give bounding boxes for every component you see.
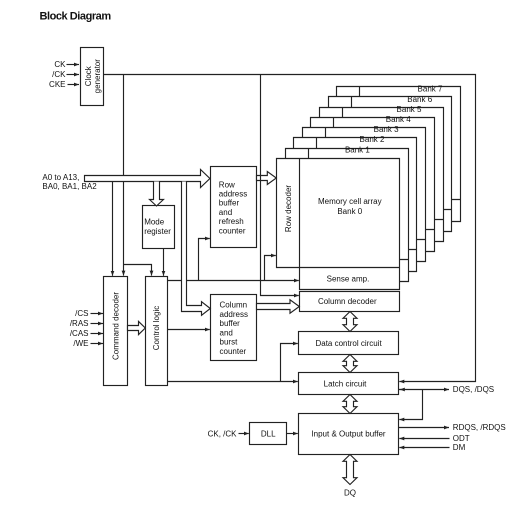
svg-text:/CS: /CS xyxy=(75,309,88,318)
svg-text:Bank 3: Bank 3 xyxy=(374,125,399,134)
hollow L arrow into column address buffer xyxy=(182,182,211,316)
svg-text:DM: DM xyxy=(453,443,466,452)
wire DQS arrowhead into latch circuit xyxy=(400,389,405,391)
hollow arrow branch into mode register xyxy=(150,182,164,207)
hollow arrow row address buffer to row decoder xyxy=(257,172,277,185)
wire CK,/CK into DLL xyxy=(239,433,249,435)
bank 6 xyxy=(329,97,452,232)
svg-text:Column: Column xyxy=(220,301,248,310)
bank 7 xyxy=(337,87,461,222)
row address buffer box xyxy=(211,167,257,248)
wire ODT into IO buffer xyxy=(399,438,449,440)
svg-text:Column decoder: Column decoder xyxy=(318,297,377,306)
hollow double arrow column decoder / data control xyxy=(343,312,357,332)
wire DQS branch into IO buffer xyxy=(399,390,422,420)
svg-text:Mode: Mode xyxy=(144,218,165,227)
svg-text:DLL: DLL xyxy=(261,429,276,438)
bank 1 xyxy=(286,149,409,282)
svg-text:Memory cell array: Memory cell array xyxy=(318,197,382,206)
hollow double arrow IO buffer / DQ xyxy=(343,455,357,485)
svg-text:Data control circuit: Data control circuit xyxy=(315,339,382,348)
wire control logic to latch circuit xyxy=(168,381,298,383)
wire RDQS output from IO buffer xyxy=(399,427,450,429)
mode register box xyxy=(143,206,175,249)
svg-text:Command decoder: Command decoder xyxy=(111,292,120,360)
svg-text:register: register xyxy=(144,227,171,236)
wire control logic to column address buffer xyxy=(168,329,210,331)
svg-text:and: and xyxy=(220,328,233,337)
svg-text:/CAS: /CAS xyxy=(70,329,89,338)
svg-text:refresh: refresh xyxy=(219,217,244,226)
wire bus branch into command decoder xyxy=(112,182,114,276)
wire /CK into clock generator xyxy=(67,74,80,76)
svg-text:Bank 5: Bank 5 xyxy=(397,105,422,114)
wire /CS into command decoder xyxy=(91,313,104,315)
svg-text:/WE: /WE xyxy=(73,339,88,348)
wire DQS output from latch circuit xyxy=(399,389,450,391)
command decoder box xyxy=(104,277,128,386)
bank 2 xyxy=(294,138,417,272)
clock generator box xyxy=(81,48,104,106)
svg-text:DQS, /DQS: DQS, /DQS xyxy=(453,385,494,394)
svg-text:address: address xyxy=(219,190,247,199)
svg-text:and: and xyxy=(219,208,232,217)
svg-text:buffer: buffer xyxy=(220,319,241,328)
wire branch up to row address buffer xyxy=(199,239,210,281)
svg-text:Bank 7: Bank 7 xyxy=(418,85,443,94)
wire /WE into command decoder xyxy=(91,343,104,345)
data control circuit box xyxy=(299,332,399,355)
wire DLL to input &amp; output buffer xyxy=(287,433,298,435)
control logic box xyxy=(146,277,168,386)
clock branch over to control logic xyxy=(124,265,152,276)
svg-text:/CK: /CK xyxy=(52,70,66,79)
wire branch up to bank 0 row decoder xyxy=(265,256,276,281)
svg-text:Bank 1: Bank 1 xyxy=(345,145,370,154)
hollow arrow command decoder to control logic xyxy=(128,321,146,334)
wire DM into IO buffer xyxy=(399,447,449,449)
svg-text:counter: counter xyxy=(219,226,246,235)
latch circuit box xyxy=(299,373,399,395)
svg-text:DQ: DQ xyxy=(344,488,356,497)
svg-text:Clock: Clock xyxy=(84,65,93,86)
input &amp; output buffer box xyxy=(299,414,399,455)
bank 5 xyxy=(320,108,444,242)
svg-text:Bank 6: Bank 6 xyxy=(407,95,432,104)
svg-text:generator: generator xyxy=(93,59,102,94)
hollow double arrow data control / latch xyxy=(343,355,357,373)
svg-text:burst: burst xyxy=(220,338,239,347)
wire /RAS into command decoder xyxy=(91,323,104,325)
svg-text:A0 to A13,: A0 to A13, xyxy=(42,173,79,182)
svg-text:Sense amp.: Sense amp. xyxy=(327,275,370,284)
svg-text:Input & Output buffer: Input & Output buffer xyxy=(311,429,385,438)
wire branch up to data control circuit xyxy=(281,344,298,382)
wire /CAS into command decoder xyxy=(91,333,104,335)
clock branch down to column decoder xyxy=(261,75,299,296)
hollow double arrow latch / IO buffer xyxy=(343,395,357,414)
column decoder box xyxy=(300,292,400,312)
svg-text:CKE: CKE xyxy=(49,80,65,89)
svg-text:Row: Row xyxy=(219,180,235,189)
svg-text:address: address xyxy=(220,310,248,319)
svg-text:buffer: buffer xyxy=(219,199,240,208)
wire mode register output into control logic xyxy=(163,249,165,276)
wire CK into clock generator xyxy=(67,64,80,66)
hollow arrow column address buffer to column decoder xyxy=(257,300,300,313)
svg-text:Bank 0: Bank 0 xyxy=(337,207,362,216)
svg-text:Row decoder: Row decoder xyxy=(284,185,293,232)
column address buffer box xyxy=(211,295,257,361)
svg-text:BA0, BA1, BA2: BA0, BA1, BA2 xyxy=(42,182,97,191)
svg-text:Latch circuit: Latch circuit xyxy=(324,380,367,389)
svg-text:CK, /CK: CK, /CK xyxy=(208,429,238,438)
DLL box xyxy=(250,423,287,445)
svg-text:ODT: ODT xyxy=(453,434,470,443)
svg-text:Bank 2: Bank 2 xyxy=(360,135,385,144)
wire control logic to sense amp xyxy=(168,280,299,282)
bank 0 (memory cell array + row decoder + sense amp) xyxy=(277,159,400,290)
bank 4 xyxy=(311,118,435,252)
address bus hollow arrow into row address buffer xyxy=(85,170,210,188)
svg-text:RDQS, /RDQS: RDQS, /RDQS xyxy=(453,423,506,432)
svg-text:/RAS: /RAS xyxy=(70,319,89,328)
clock wire from clock generator to latch circuit (right side) xyxy=(104,75,476,382)
wire CKE into clock generator xyxy=(68,84,80,86)
svg-text:Bank 4: Bank 4 xyxy=(386,115,411,124)
clock branch down to command decoder xyxy=(123,75,125,276)
svg-text:Block Diagram: Block Diagram xyxy=(40,11,112,23)
svg-text:Control logic: Control logic xyxy=(152,306,161,350)
bank 3 xyxy=(303,128,426,262)
svg-text:CK: CK xyxy=(54,60,66,69)
svg-text:counter: counter xyxy=(220,347,247,356)
